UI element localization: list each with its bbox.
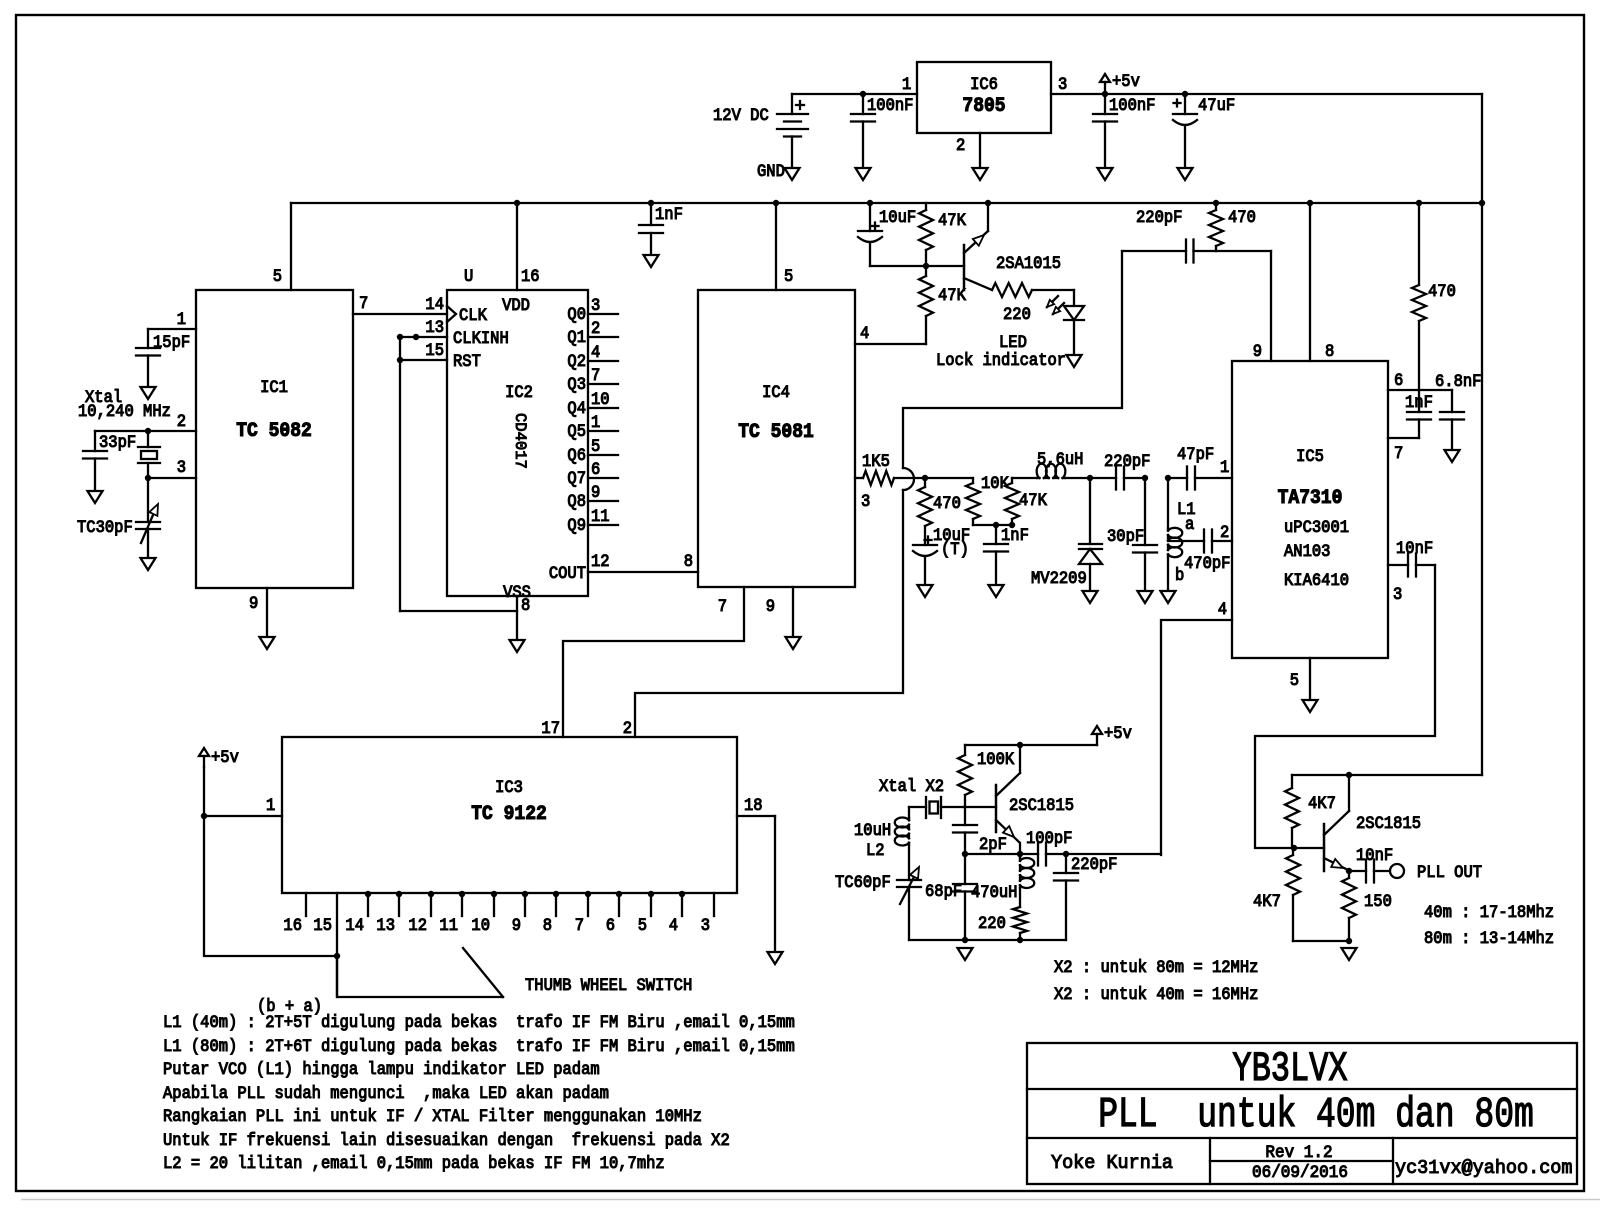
label pin 3 IC3	[701, 915, 710, 935]
svg-text:4K7: 4K7	[1253, 891, 1281, 911]
resistor 10K	[966, 478, 980, 525]
title 06/09/2016	[1252, 1163, 1348, 1183]
wire +5v down right side	[1481, 94, 1483, 775]
svg-text:3: 3	[177, 457, 186, 477]
svg-text:6: 6	[1394, 370, 1403, 390]
ground IC2 VSS	[510, 640, 525, 652]
node pin2-xtal junction	[145, 428, 151, 434]
svg-text:4: 4	[860, 323, 869, 343]
ground IC4 pin9	[786, 637, 801, 649]
pin 2 IC1 wire	[95, 430, 196, 432]
pin 4 IC4 wire	[855, 343, 926, 345]
node pin1 junction	[201, 813, 207, 819]
regulator IC6 7805	[917, 62, 1051, 133]
label pin 2 IC1	[177, 411, 186, 431]
capacitor 1nF filter	[984, 525, 1008, 585]
label L2	[866, 840, 885, 860]
svg-text:13: 13	[425, 317, 444, 337]
svg-text:VDD: VDD	[502, 295, 530, 315]
svg-text:4: 4	[669, 915, 678, 935]
label pin 1 IC1	[177, 309, 186, 329]
resistor 150	[1342, 871, 1356, 941]
svg-text:7: 7	[575, 915, 584, 935]
label Q2	[567, 351, 586, 371]
label pin 16 IC3	[283, 915, 302, 935]
svg-text:8: 8	[684, 551, 693, 571]
svg-text:Yoke Kurnia: Yoke Kurnia	[1051, 1152, 1173, 1175]
node emitter junction	[1017, 851, 1023, 857]
svg-text:L2 = 20 lilitan ,email 0,15mm: L2 = 20 lilitan ,email 0,15mm pada bekas…	[163, 1153, 665, 1173]
capacitor 10uF T	[913, 537, 937, 586]
node 100nF out junction	[1102, 91, 1108, 97]
ground 10uF T	[918, 585, 933, 597]
label 10,240 MHz	[78, 401, 171, 421]
svg-text:5,6uH: 5,6uH	[1037, 449, 1083, 469]
wire 10K-47K bottoms	[973, 524, 1012, 526]
pin 5 IC1 wire	[290, 203, 292, 290]
label pin 3 Q0	[591, 295, 600, 315]
label LED	[999, 332, 1027, 352]
svg-text:10uH: 10uH	[854, 820, 891, 840]
svg-text:100pF: 100pF	[1026, 828, 1072, 848]
svg-text:7: 7	[591, 365, 600, 385]
svg-text:9: 9	[766, 596, 775, 616]
svg-text:1nF: 1nF	[1405, 392, 1433, 412]
inductor 10uH L2	[895, 807, 909, 880]
label 470 filter	[933, 493, 961, 513]
svg-text:10nF: 10nF	[1356, 845, 1393, 865]
svg-text:150: 150	[1364, 891, 1392, 911]
svg-text:10nF: 10nF	[1396, 538, 1433, 558]
svg-text:Q5: Q5	[567, 421, 586, 441]
svg-text:YB3LVX: YB3LVX	[1232, 1046, 1347, 1093]
label pin 10 Q4	[591, 389, 610, 409]
pin 18 IC3 wire	[737, 816, 775, 952]
IC1 TC 5082	[196, 290, 353, 588]
node buffer emitter junction	[1346, 868, 1352, 874]
wire base 2SA1015	[926, 265, 964, 267]
wire node to IC6 pin1	[863, 93, 917, 95]
capacitor 33pF	[83, 431, 107, 491]
svg-text:11: 11	[439, 915, 458, 935]
label Q5	[567, 421, 586, 441]
ground battery	[785, 168, 800, 180]
node pin13 junction a	[397, 334, 403, 340]
label 68pF	[925, 881, 962, 901]
label pin 16	[521, 266, 540, 286]
pin 5 IC4 wire	[775, 203, 777, 290]
label TC60pF	[835, 872, 891, 892]
svg-text:X2 : untuk 80m = 12MHz: X2 : untuk 80m = 12MHz	[1054, 957, 1258, 977]
label CLKINH	[453, 328, 509, 348]
label 40m : 17-18Mhz	[1424, 902, 1554, 922]
svg-text:18: 18	[744, 795, 763, 815]
svg-text:4: 4	[591, 342, 600, 362]
svg-text:Untuk IF frekuensi lain disesu: Untuk IF frekuensi lain disesuaikan deng…	[163, 1130, 730, 1150]
svg-text:12: 12	[408, 915, 427, 935]
label +5v top	[1112, 71, 1140, 91]
label pin 7 Q3	[591, 365, 600, 385]
label 1nF pin6	[1405, 392, 1433, 412]
svg-text:7805: 7805	[962, 94, 1005, 117]
wire 2pF to emitter	[965, 853, 1020, 855]
label 15pF	[153, 332, 190, 352]
svg-text:1: 1	[902, 74, 911, 94]
label 47K lower	[938, 285, 966, 305]
pin 2 IC6 wire	[979, 133, 981, 168]
capacitor 2pF	[953, 807, 977, 854]
pin 7 IC4 wire to IC3 pin 17	[563, 587, 744, 737]
label 47uF	[1198, 95, 1235, 115]
label 4K7 lower	[1253, 891, 1281, 911]
svg-text:16: 16	[283, 915, 302, 935]
svg-text:1: 1	[1220, 457, 1229, 477]
resistor 4K7 lower	[1286, 848, 1300, 941]
capacitor 100nF output	[1093, 94, 1117, 168]
label pin 10 IC3	[471, 915, 490, 935]
scan artifact line	[22, 1199, 1600, 1201]
ground IC3 pin18	[768, 952, 783, 964]
svg-text:40m : 17-18Mhz: 40m : 17-18Mhz	[1424, 902, 1554, 922]
label 150	[1364, 891, 1392, 911]
+5v symbol top	[1100, 74, 1110, 93]
+5v symbol IC3	[199, 748, 209, 767]
svg-text:Q1: Q1	[567, 327, 586, 347]
label pin 1 Q5	[591, 412, 600, 432]
node bus-470b junction	[1416, 200, 1422, 206]
node bus-IC2 junction	[514, 200, 520, 206]
label X2 40m note	[1054, 984, 1258, 1004]
svg-text:1: 1	[591, 412, 600, 432]
svg-text:L1 (40m) : 2T+5T digulung pada: L1 (40m) : 2T+5T digulung pada bekas tra…	[163, 1012, 795, 1032]
label pin 6 IC3	[606, 915, 615, 935]
label Q8	[567, 491, 586, 511]
node 47uF junction	[1182, 91, 1188, 97]
label pin 4 IC3	[669, 915, 678, 935]
node L1 junction	[1165, 475, 1171, 481]
label pin 9 IC4	[766, 596, 775, 616]
label GND	[757, 161, 785, 181]
svg-text:80m : 13-14Mhz: 80m : 13-14Mhz	[1424, 928, 1554, 948]
wire osc +5v rail	[965, 744, 1097, 746]
svg-text:2SC1815: 2SC1815	[1356, 813, 1421, 833]
label 470 pump	[1228, 207, 1256, 227]
svg-text:Xtal X2: Xtal X2	[879, 776, 944, 796]
capacitor 220pF pump	[1122, 240, 1271, 263]
svg-text:a: a	[1185, 514, 1194, 534]
svg-text:3: 3	[1058, 74, 1067, 94]
IC3 bottom pin stubs	[306, 893, 714, 916]
label Q0	[567, 304, 586, 324]
note line 6	[163, 1130, 730, 1150]
label 220pF vco	[1104, 451, 1150, 471]
pin 9 IC5 wire	[1270, 251, 1272, 361]
resistor 470 pin6	[1412, 203, 1426, 390]
crystal X2	[909, 797, 964, 818]
capacitor 68pF	[953, 854, 977, 940]
svg-text:10,240 MHz: 10,240 MHz	[78, 401, 171, 421]
node bus-10uF junction	[867, 200, 873, 206]
svg-text:7: 7	[1394, 443, 1403, 463]
svg-text:Apabila PLL sudah mengunci ,m: Apabila PLL sudah mengunci ,maka LED aka…	[163, 1083, 609, 1103]
label VDD	[502, 295, 530, 315]
label 6.8nF	[1435, 371, 1481, 391]
trimmer TC60pF	[897, 867, 921, 940]
svg-text:IC5: IC5	[1296, 446, 1324, 466]
label pin 5 IC5	[1290, 670, 1299, 690]
ground 6.8nF	[1445, 450, 1460, 462]
svg-text:100K: 100K	[977, 749, 1014, 769]
resistor 470 filter	[918, 478, 932, 545]
node buffer collector junction	[1346, 772, 1352, 778]
ground osc	[958, 948, 973, 960]
IC4 TC 5081	[698, 290, 855, 587]
svg-text:6.8nF: 6.8nF	[1435, 371, 1481, 391]
capacitor 6.8nF	[1440, 390, 1464, 450]
label pin 8 IC2	[521, 595, 530, 615]
svg-text:IC1: IC1	[260, 377, 288, 397]
wire reset chain down	[400, 337, 517, 611]
label 470uH	[971, 882, 1017, 902]
svg-text:3: 3	[701, 915, 710, 935]
svg-text:Q9: Q9	[567, 515, 586, 535]
svg-text:470: 470	[933, 493, 961, 513]
+5v symbol osc	[1092, 726, 1102, 745]
label pin 2 IC6	[956, 135, 965, 155]
svg-text:470pF: 470pF	[1184, 553, 1230, 573]
label pin 7 IC1	[359, 293, 368, 313]
label Xtal X2	[879, 776, 944, 796]
wire +5v bus	[291, 202, 1482, 204]
title email	[1395, 1157, 1572, 1180]
svg-text:2: 2	[623, 718, 632, 738]
svg-text:11: 11	[591, 506, 610, 526]
svg-text:L1 (80m) : 2T+6T digulung pada: L1 (80m) : 2T+6T digulung pada bekas tra…	[163, 1036, 795, 1056]
label 47K filter	[1019, 490, 1047, 510]
svg-text:13: 13	[376, 915, 395, 935]
label 10nF pin3	[1396, 538, 1433, 558]
trimmer TC30pF	[136, 478, 160, 558]
svg-text:(T): (T)	[941, 539, 969, 559]
svg-text:2SC1815: 2SC1815	[1009, 795, 1074, 815]
resistor 220 LED	[992, 283, 1074, 297]
svg-text:KIA6410: KIA6410	[1284, 570, 1349, 590]
svg-text:14: 14	[425, 294, 444, 314]
IC2 CD4017	[447, 290, 588, 596]
label 100pF	[1026, 828, 1072, 848]
label a	[1185, 514, 1194, 534]
label 2SA1015	[996, 253, 1061, 273]
capacitor 470pF tap	[1168, 530, 1232, 553]
label MV2209	[1031, 568, 1087, 588]
title Yoke Kurnia	[1051, 1152, 1173, 1175]
svg-text:47pF: 47pF	[1177, 444, 1214, 464]
Q0-Q9 output stubs	[588, 314, 618, 525]
label pin 11 IC3	[439, 915, 458, 935]
label VSS	[503, 582, 531, 602]
pin 4 IC5 wire	[1161, 620, 1232, 855]
svg-text:12: 12	[591, 551, 610, 571]
svg-text:5: 5	[784, 266, 793, 286]
svg-text:10uF: 10uF	[879, 207, 916, 227]
label pin 14	[425, 294, 444, 314]
svg-text:RST: RST	[453, 351, 481, 371]
label pin 9 IC5	[1253, 341, 1262, 361]
pin 9 IC4 wire	[792, 587, 794, 637]
label 470pF tap	[1184, 553, 1230, 573]
label Q6	[567, 445, 586, 465]
node 100pF junction	[1063, 851, 1069, 857]
label pin 6 Q7	[591, 459, 600, 479]
label 220 LED	[1003, 304, 1031, 324]
svg-text:14: 14	[345, 915, 364, 935]
svg-text:TA7310: TA7310	[1278, 486, 1343, 509]
svg-text:TC 5081: TC 5081	[738, 420, 814, 443]
svg-text:1: 1	[266, 795, 275, 815]
ground 1nF filter	[989, 585, 1004, 597]
pin 1 IC3 wire	[204, 767, 282, 816]
label +5v IC3	[211, 747, 239, 767]
pin 8 IC5 wire	[1309, 203, 1311, 361]
svg-text:4: 4	[1218, 599, 1227, 619]
svg-text:Q7: Q7	[567, 468, 586, 488]
pin 15 long stub	[336, 893, 338, 997]
svg-text:3: 3	[1393, 584, 1402, 604]
capacitor 47uF	[1173, 94, 1197, 168]
svg-text:+5v: +5v	[211, 747, 239, 767]
note line 3	[163, 1059, 600, 1079]
label Xtal	[85, 387, 122, 407]
label Q4	[567, 398, 586, 418]
label Q3	[567, 374, 586, 394]
svg-text:Q6: Q6	[567, 445, 586, 465]
label Q9	[567, 515, 586, 535]
label 47pF	[1177, 444, 1214, 464]
node 47K bottom junction	[1009, 522, 1015, 528]
label pin 1 IC6	[902, 74, 911, 94]
node bus-2SA1015 junction	[985, 200, 991, 206]
label 47K upper	[938, 210, 966, 230]
svg-text:2: 2	[956, 135, 965, 155]
label pin 7 IC3	[575, 915, 584, 935]
label pin 13	[425, 317, 444, 337]
label TC30pF	[77, 517, 133, 537]
label 10uH	[854, 820, 891, 840]
capacitor 30pF	[1133, 478, 1157, 591]
svg-text:Q4: Q4	[567, 398, 586, 418]
ground TC30pF	[141, 558, 156, 570]
wire battery to node	[792, 93, 863, 95]
svg-text:8: 8	[543, 915, 552, 935]
svg-text:7: 7	[718, 596, 727, 616]
capacitor 100nF input	[851, 94, 875, 168]
label pin 1 IC5	[1220, 457, 1229, 477]
label pin 3 IC6	[1058, 74, 1067, 94]
label pin 11 Q9	[591, 506, 610, 526]
capacitor 10nF output	[1349, 860, 1390, 883]
label CLK	[459, 305, 487, 325]
capacitor 15pF	[136, 348, 160, 387]
node bus-470 junction	[1213, 200, 1219, 206]
wire emitter down	[1019, 843, 1021, 854]
svg-text:220: 220	[978, 913, 1006, 933]
label pin 4 IC5	[1218, 599, 1227, 619]
ground LED	[1067, 355, 1082, 367]
label pin 9 IC3	[512, 915, 521, 935]
ground 100nF input	[856, 168, 871, 180]
svg-text:220pF: 220pF	[1104, 451, 1150, 471]
svg-text:5: 5	[1290, 670, 1299, 690]
svg-text:1nF: 1nF	[1001, 525, 1029, 545]
label pin 14 IC3	[345, 915, 364, 935]
node bus-1nF junction	[648, 200, 654, 206]
svg-text:2pF: 2pF	[979, 834, 1007, 854]
node bus-IC4 junction	[773, 200, 779, 206]
ground MV2209	[1083, 591, 1098, 603]
IC3 TC 9122	[282, 737, 737, 893]
label 1nF filter	[1001, 525, 1029, 545]
svg-text:9: 9	[249, 593, 258, 613]
svg-text:47K: 47K	[938, 210, 966, 230]
svg-text:47K: 47K	[938, 285, 966, 305]
node varactor junction	[1087, 475, 1093, 481]
label 220pF pump	[1136, 207, 1182, 227]
label 30pF	[1107, 526, 1144, 546]
LED arrows	[1047, 296, 1064, 314]
label pin 8 IC4	[684, 551, 693, 571]
node buffer base junction	[1291, 845, 1297, 851]
note line 7	[163, 1153, 665, 1173]
node rail 220 junction	[1017, 937, 1023, 943]
svg-text:7: 7	[359, 293, 368, 313]
label RST	[453, 351, 481, 371]
svg-text:Q3: Q3	[567, 374, 586, 394]
svg-text:uPC3001: uPC3001	[1284, 517, 1349, 537]
svg-text:+5v: +5v	[1112, 71, 1140, 91]
pin 7 wire IC1-IC2	[353, 313, 447, 315]
note line 5	[163, 1106, 702, 1126]
wire IC6 pin3 +5v rail	[1051, 93, 1482, 95]
pin 1 IC1 wire	[148, 329, 196, 348]
svg-text:TC30pF: TC30pF	[77, 517, 133, 537]
label 1nF bus	[655, 204, 683, 224]
node osc collector junction	[1017, 742, 1023, 748]
svg-text:10: 10	[471, 915, 490, 935]
label 100nF input	[867, 95, 913, 115]
IC3 stub junction dots	[365, 891, 685, 897]
label PLL OUT	[1417, 862, 1482, 882]
label 220pF osc	[1071, 854, 1117, 874]
svg-text:2SA1015: 2SA1015	[996, 253, 1061, 273]
svg-text:5: 5	[273, 266, 282, 286]
svg-text:TC60pF: TC60pF	[835, 872, 891, 892]
label pin 5 IC1	[273, 266, 282, 286]
ground IC5 pin5	[1303, 700, 1318, 712]
node buffer ground junction	[1346, 938, 1352, 944]
inductor 470uH	[1020, 854, 1034, 907]
svg-text:+5v: +5v	[1104, 723, 1132, 743]
label 10uF lock	[879, 207, 916, 227]
svg-text:Rangkaian PLL ini untuk IF / X: Rangkaian PLL ini untuk IF / XTAL Filter…	[163, 1106, 702, 1126]
svg-text:CLKINH: CLKINH	[453, 328, 509, 348]
node 2SA1015 base junction	[923, 263, 929, 269]
resistor 100K	[958, 745, 972, 807]
capacitor 1nF pin6	[1388, 390, 1431, 438]
svg-text:TC 9122: TC 9122	[471, 802, 547, 825]
pin 3 IC4 1K5 resistor	[855, 471, 925, 485]
svg-text:X2 : untuk 40m = 16MHz: X2 : untuk 40m = 16MHz	[1054, 984, 1258, 1004]
label pin 5 IC3	[638, 915, 647, 935]
